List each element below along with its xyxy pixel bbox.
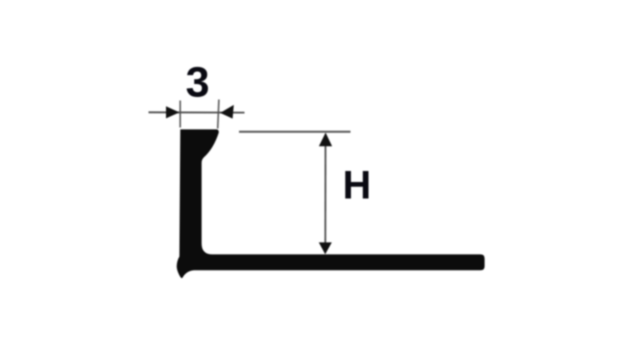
dimension 3: left arrowhead	[166, 106, 179, 118]
dimension 3: right arrowhead	[220, 105, 234, 119]
dimension H: bottom arrowhead	[319, 242, 332, 254]
dimension H: top arrowhead	[319, 133, 332, 147]
dimension H: vertical dimension line	[324, 134, 326, 253]
dimension 3: dimension line	[149, 111, 245, 113]
svg-text:H: H	[343, 164, 372, 208]
dimension 3: left extension line	[179, 101, 181, 128]
dimension H: top reference line	[239, 131, 351, 133]
svg-text:3: 3	[186, 58, 210, 106]
dimension 3: right extension line	[218, 100, 219, 129]
L-profile body	[177, 129, 485, 278]
